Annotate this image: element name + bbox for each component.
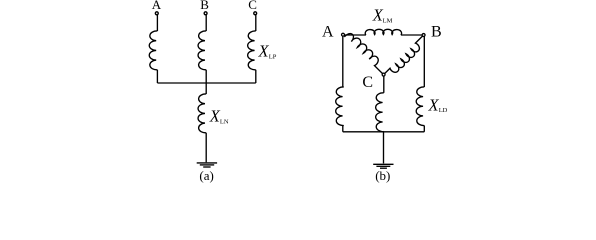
wire bus to ground (b): [383, 132, 385, 164]
svg-text:(a): (a): [199, 168, 213, 183]
wire left coil to bus (b): [342, 126, 344, 132]
terminal A (a): [155, 12, 158, 15]
svg-text:LD: LD: [439, 107, 448, 114]
wire B coil to neutral coil (a): [205, 70, 207, 94]
inductor phase B (a): [198, 31, 206, 70]
wire B terminal to coil (a): [205, 15, 207, 31]
svg-text:LN: LN: [220, 118, 229, 125]
svg-text:X: X: [258, 42, 270, 61]
inductor X_LM (b): [365, 29, 401, 35]
node B (b): [422, 34, 425, 37]
svg-text:A: A: [322, 23, 334, 40]
svg-text:A: A: [152, 0, 162, 12]
svg-text:X: X: [209, 106, 221, 125]
svg-text:LM: LM: [383, 18, 393, 25]
wire right coil to bus (b): [423, 126, 425, 132]
wire X_LM coil to B (b): [401, 34, 424, 36]
svg-text:(b): (b): [375, 168, 390, 183]
bus (b): [343, 131, 425, 133]
svg-text:C: C: [248, 0, 257, 12]
inductor X_LN neutral (a): [198, 94, 206, 133]
terminal B (a): [204, 12, 207, 15]
inductor A-C winding (b): [343, 34, 384, 75]
svg-text:X: X: [428, 95, 440, 114]
wire A terminal to coil (a): [156, 15, 158, 31]
inductor phase A (a): [149, 31, 157, 70]
inductor X_LP phase C (a): [248, 31, 256, 70]
inductor left branch (b): [336, 87, 344, 126]
inductor X_LD right branch (b): [416, 87, 424, 126]
wire A coil to bus (a): [156, 70, 158, 83]
terminal C (a): [254, 12, 257, 15]
inductor neutral branch (b): [376, 93, 384, 132]
wire C coil to bus (a): [255, 70, 257, 83]
inductor B-C winding (b): [384, 35, 424, 75]
node C (b): [382, 73, 385, 76]
node A (b): [342, 33, 345, 36]
ground (a): [197, 163, 217, 167]
svg-text:B: B: [431, 23, 442, 40]
wire neutral coil to ground (a): [205, 133, 207, 163]
wire A to X_LM coil (b): [343, 34, 366, 36]
ground (b): [373, 164, 393, 168]
wire C terminal to coil (a): [255, 15, 257, 31]
svg-text:C: C: [362, 74, 373, 91]
wire B down (b): [423, 37, 425, 88]
svg-text:B: B: [200, 0, 209, 12]
neutral bus (a): [157, 82, 255, 84]
wire C to coil (b): [383, 76, 385, 92]
wire A down (b): [342, 37, 344, 88]
svg-text:LP: LP: [269, 54, 277, 61]
